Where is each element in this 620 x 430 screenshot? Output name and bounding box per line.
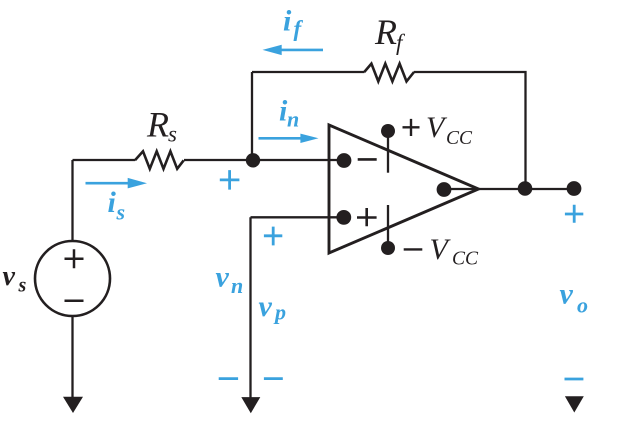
svg-text:i: i xyxy=(283,4,292,37)
svg-text:s: s xyxy=(18,275,27,297)
svg-text:f: f xyxy=(294,16,304,41)
svg-text:v: v xyxy=(3,261,16,292)
svg-text:v: v xyxy=(216,261,230,294)
svg-text:n: n xyxy=(231,273,243,298)
svg-text:V: V xyxy=(426,111,448,144)
svg-text:R: R xyxy=(374,12,397,52)
svg-text:o: o xyxy=(577,292,588,317)
svg-text:V: V xyxy=(430,233,452,266)
svg-text:R: R xyxy=(146,105,169,145)
svg-text:p: p xyxy=(273,300,286,325)
svg-text:f: f xyxy=(396,30,406,55)
svg-text:s: s xyxy=(168,122,177,147)
svg-text:i: i xyxy=(108,186,117,219)
svg-text:n: n xyxy=(287,107,299,132)
svg-text:CC: CC xyxy=(452,249,479,270)
svg-text:v: v xyxy=(259,290,273,323)
svg-text:CC: CC xyxy=(446,128,473,149)
svg-text:s: s xyxy=(116,200,126,225)
svg-text:v: v xyxy=(560,278,574,311)
